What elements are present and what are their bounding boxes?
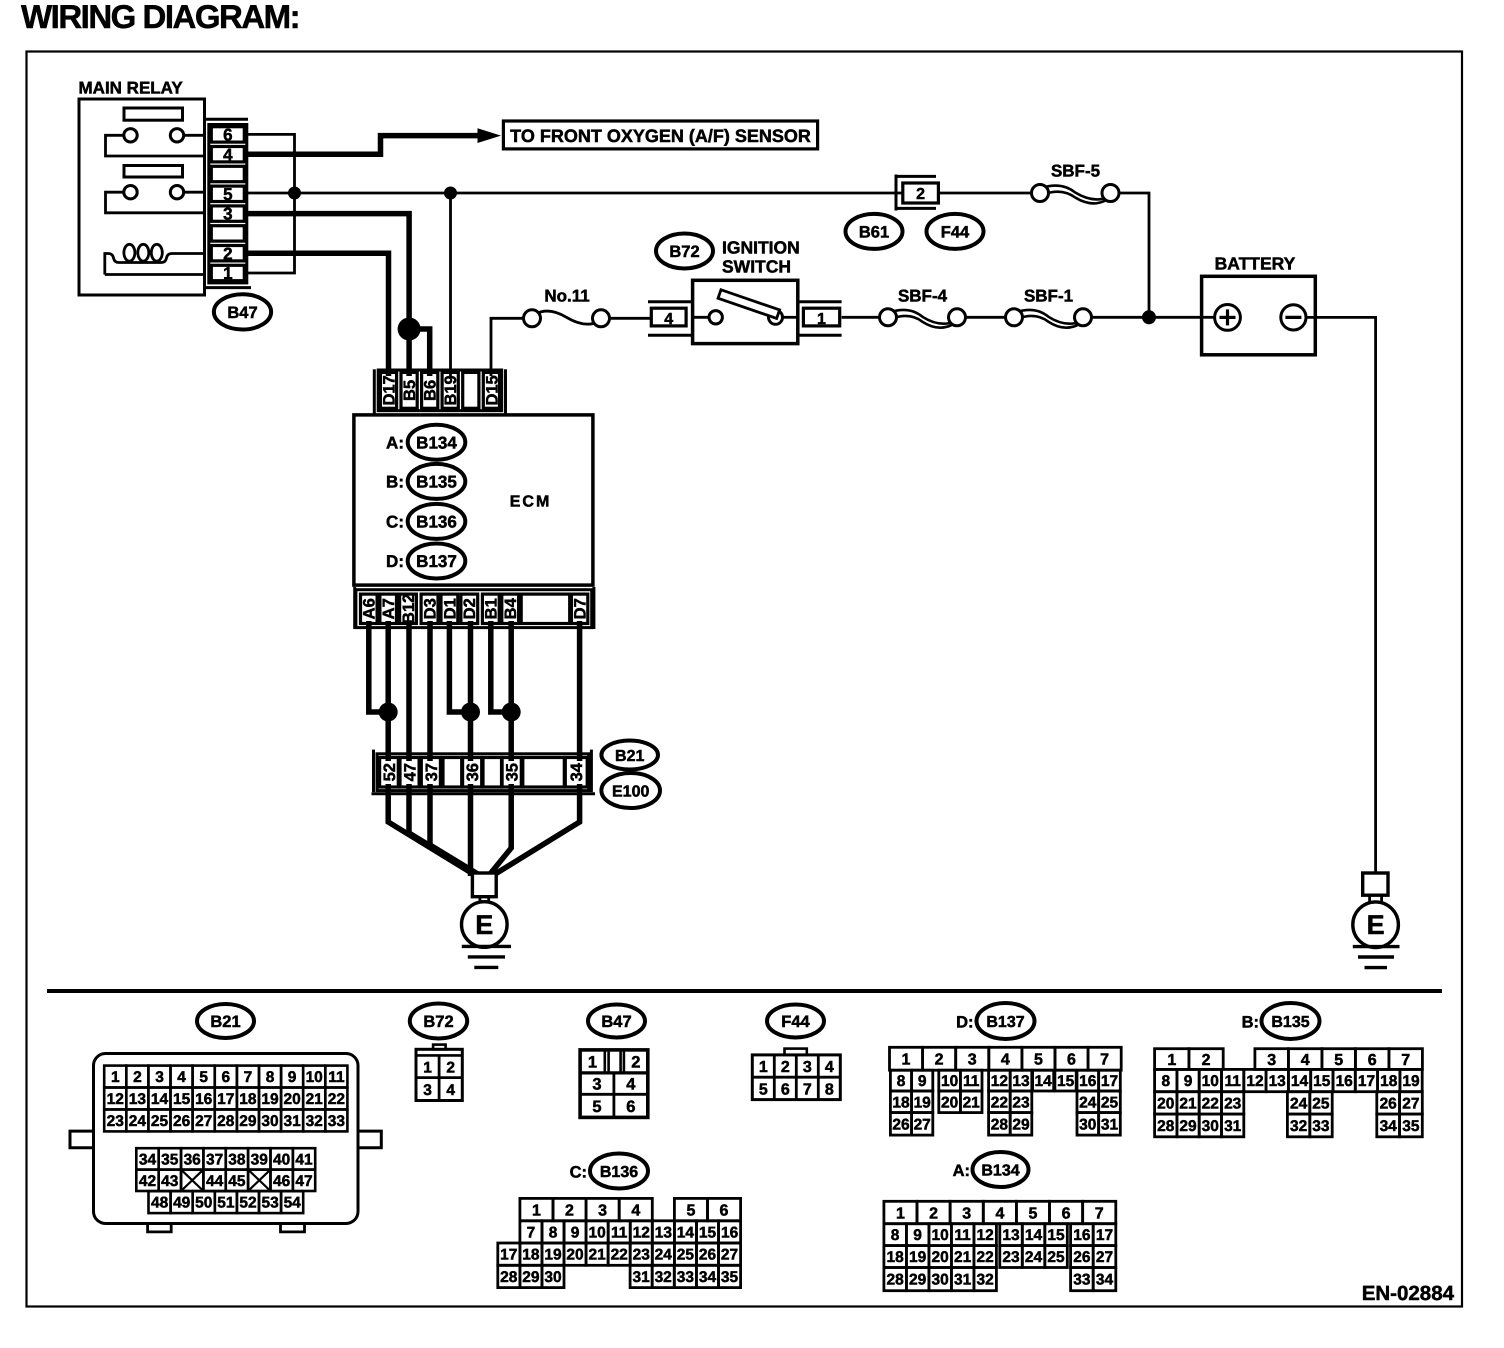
svg-text:18: 18 — [1380, 1073, 1398, 1090]
svg-text:35: 35 — [504, 763, 522, 781]
svg-text:B61: B61 — [859, 223, 889, 241]
svg-text:A7: A7 — [380, 598, 398, 619]
wire pin2 to ECM D17 (thick) — [247, 253, 389, 376]
svg-text:4: 4 — [1001, 1052, 1010, 1069]
ECM top connector strip (D17 B5 B6 B19 D15) — [374, 369, 505, 414]
svg-text:6: 6 — [1067, 1052, 1076, 1069]
svg-text:D15: D15 — [483, 375, 501, 405]
connector C B136 designator — [570, 1154, 648, 1189]
svg-text:42: 42 — [139, 1173, 156, 1190]
wire B1 (thick) — [491, 621, 511, 712]
svg-text:54: 54 — [284, 1195, 302, 1212]
svg-text:B:: B: — [1242, 1013, 1259, 1031]
svg-text:D:: D: — [956, 1013, 973, 1031]
svg-text:14: 14 — [1291, 1073, 1309, 1090]
svg-text:30: 30 — [931, 1272, 948, 1289]
oxygen sensor box — [503, 121, 817, 149]
wire D3 to pin37 (thick) — [427, 621, 433, 761]
svg-text:3: 3 — [962, 1205, 971, 1222]
svg-text:B12: B12 — [400, 594, 418, 624]
ECM connector ref A: B134 — [386, 425, 465, 460]
svg-text:51: 51 — [217, 1195, 235, 1212]
connector D B137 designator — [956, 1003, 1034, 1039]
svg-text:33: 33 — [1312, 1118, 1330, 1135]
svg-text:WIRING DIAGRAM:: WIRING DIAGRAM: — [21, 0, 299, 35]
ECM bottom connector strip (A6 A7 B12 D3 D1 D2 B1 B4 D7) — [355, 587, 594, 629]
svg-text:B136: B136 — [416, 513, 457, 532]
svg-text:37: 37 — [206, 1152, 223, 1169]
svg-text:C:: C: — [386, 513, 404, 532]
svg-text:32: 32 — [655, 1269, 672, 1286]
svg-text:8: 8 — [891, 1227, 900, 1244]
svg-text:A:: A: — [386, 433, 404, 452]
svg-text:10: 10 — [931, 1227, 948, 1244]
svg-text:1: 1 — [111, 1069, 120, 1086]
svg-text:18: 18 — [522, 1247, 540, 1264]
svg-text:22: 22 — [611, 1247, 628, 1264]
svg-text:2: 2 — [1202, 1052, 1211, 1069]
wire ECM D15 to fuse No.11 — [491, 318, 524, 376]
svg-text:SBF-1: SBF-1 — [1024, 287, 1073, 306]
svg-text:29: 29 — [522, 1269, 540, 1286]
svg-text:23: 23 — [1224, 1096, 1242, 1113]
svg-text:4: 4 — [626, 1076, 636, 1094]
svg-text:15: 15 — [699, 1225, 717, 1242]
svg-text:8: 8 — [1161, 1073, 1170, 1090]
svg-text:E: E — [475, 910, 493, 940]
svg-text:C:: C: — [570, 1163, 587, 1181]
svg-text:34: 34 — [568, 762, 586, 781]
svg-text:21: 21 — [588, 1247, 606, 1264]
svg-text:19: 19 — [544, 1247, 562, 1264]
svg-text:8: 8 — [266, 1069, 275, 1086]
svg-text:21: 21 — [306, 1091, 324, 1108]
wire SBF-5 to junction — [1119, 193, 1149, 317]
svg-text:29: 29 — [239, 1113, 257, 1130]
svg-text:40: 40 — [273, 1152, 290, 1169]
svg-text:29: 29 — [909, 1272, 927, 1289]
svg-text:11: 11 — [954, 1227, 971, 1244]
svg-text:25: 25 — [151, 1113, 169, 1130]
svg-text:12: 12 — [991, 1073, 1008, 1090]
fuse SBF-4 — [880, 287, 966, 328]
svg-text:16: 16 — [721, 1225, 739, 1242]
svg-text:17: 17 — [1096, 1227, 1113, 1244]
svg-text:8: 8 — [897, 1073, 906, 1090]
svg-text:22: 22 — [1202, 1096, 1219, 1113]
wire pin2box to SBF-5 — [938, 192, 1031, 195]
svg-text:2: 2 — [446, 1059, 455, 1076]
svg-text:6: 6 — [781, 1081, 790, 1098]
svg-text:35: 35 — [721, 1269, 739, 1286]
svg-text:25: 25 — [1312, 1096, 1330, 1113]
svg-text:8: 8 — [549, 1225, 558, 1242]
ECM connector ref D: B137 — [386, 544, 465, 579]
svg-text:47: 47 — [402, 763, 420, 781]
svg-text:3: 3 — [1267, 1052, 1276, 1069]
connector designator B21 (strip) — [601, 741, 658, 770]
wire SBF-4 to SBF-1 — [966, 316, 1006, 319]
wire No.11 to connector 4 — [610, 317, 652, 320]
connector B47 designator (pinout) — [588, 1005, 645, 1038]
connector C B136 pin grid — [498, 1198, 741, 1287]
svg-text:B47: B47 — [601, 1013, 631, 1031]
svg-text:B21: B21 — [210, 1013, 240, 1031]
svg-text:4: 4 — [1301, 1052, 1310, 1069]
svg-text:12: 12 — [633, 1225, 650, 1242]
svg-text:19: 19 — [1402, 1073, 1420, 1090]
svg-text:32: 32 — [1290, 1118, 1307, 1135]
svg-text:10: 10 — [941, 1073, 958, 1090]
connector pin 1 box (ignition switch output) — [798, 302, 842, 336]
fuse No.11 — [524, 287, 610, 327]
connector F44 body (pins 1-8) — [752, 1049, 840, 1100]
svg-text:1: 1 — [759, 1059, 768, 1076]
wire pin35 to ground (thick) — [488, 784, 511, 877]
svg-text:11: 11 — [963, 1073, 980, 1090]
svg-text:3: 3 — [423, 1082, 432, 1099]
svg-text:33: 33 — [328, 1113, 346, 1130]
battery label — [1215, 253, 1296, 273]
svg-text:21: 21 — [954, 1249, 972, 1266]
relay coil — [105, 244, 205, 274]
svg-text:27: 27 — [1096, 1249, 1113, 1266]
svg-text:B135: B135 — [1271, 1014, 1309, 1031]
svg-text:6: 6 — [1368, 1052, 1377, 1069]
svg-text:28: 28 — [991, 1116, 1009, 1133]
svg-text:16: 16 — [1073, 1227, 1091, 1244]
svg-text:3: 3 — [598, 1202, 607, 1219]
svg-text:27: 27 — [721, 1247, 738, 1264]
wire pin52 to ground (thick) — [388, 784, 479, 878]
title WIRING DIAGRAM — [21, 0, 299, 35]
connector B47 designator — [214, 294, 271, 329]
svg-text:B136: B136 — [600, 1164, 638, 1181]
battery negative terminal — [1281, 305, 1306, 330]
svg-text:SWITCH: SWITCH — [722, 257, 791, 277]
wire B4 to pin35 (thick) — [508, 621, 514, 761]
svg-text:5: 5 — [759, 1081, 768, 1098]
svg-text:28: 28 — [886, 1272, 904, 1289]
svg-text:D1: D1 — [441, 598, 459, 619]
svg-text:2: 2 — [781, 1059, 790, 1076]
svg-text:22: 22 — [976, 1249, 993, 1266]
body ground connector strip (52 47 37 36 35 34) — [372, 750, 596, 794]
svg-text:2: 2 — [929, 1205, 938, 1222]
svg-text:31: 31 — [1224, 1118, 1242, 1135]
svg-text:F44: F44 — [941, 223, 970, 241]
svg-text:52: 52 — [239, 1195, 256, 1212]
svg-text:25: 25 — [1047, 1249, 1065, 1266]
svg-text:4: 4 — [446, 1082, 455, 1099]
junction dot A6/A7 — [379, 703, 398, 722]
wire switch to SBF-4 — [842, 316, 880, 319]
wire pin37 to ground (thick) — [430, 784, 484, 878]
svg-text:23: 23 — [633, 1247, 651, 1264]
svg-text:26: 26 — [1380, 1096, 1398, 1113]
wire pin34 to ground (thick) — [490, 784, 580, 878]
svg-text:43: 43 — [161, 1173, 179, 1190]
svg-text:4: 4 — [223, 145, 233, 164]
wire battery negative to ground E — [1306, 317, 1376, 873]
svg-text:D17: D17 — [380, 375, 398, 405]
svg-text:26: 26 — [699, 1247, 717, 1264]
connector pin 4 box (ignition switch input) — [648, 302, 693, 336]
svg-text:31: 31 — [283, 1113, 301, 1130]
svg-text:3: 3 — [803, 1059, 812, 1076]
svg-text:34: 34 — [139, 1152, 157, 1169]
svg-text:20: 20 — [1157, 1096, 1174, 1113]
svg-text:1: 1 — [817, 311, 826, 328]
svg-text:50: 50 — [195, 1195, 212, 1212]
svg-text:16: 16 — [1079, 1073, 1097, 1090]
svg-text:1: 1 — [896, 1205, 905, 1222]
wire pin6 to pin1 loop — [247, 134, 295, 273]
svg-text:15: 15 — [1047, 1227, 1065, 1244]
svg-text:9: 9 — [918, 1073, 927, 1090]
svg-text:D:: D: — [386, 552, 404, 571]
svg-text:9: 9 — [1184, 1073, 1193, 1090]
wire contact1 right to pin 6 — [184, 134, 205, 137]
svg-text:10: 10 — [306, 1069, 323, 1086]
svg-text:E: E — [1367, 910, 1385, 940]
connector pin 2 box (SBF-5 feed) — [896, 175, 938, 211]
svg-text:12: 12 — [1246, 1073, 1263, 1090]
connector B72 body (pins 1-4) — [416, 1045, 462, 1101]
svg-text:53: 53 — [261, 1195, 279, 1212]
svg-text:6: 6 — [626, 1098, 635, 1116]
svg-text:1: 1 — [532, 1202, 541, 1219]
svg-text:B47: B47 — [227, 304, 257, 322]
svg-text:B137: B137 — [986, 1014, 1024, 1031]
wire branch to ECM B6 (thick) — [409, 329, 430, 376]
svg-text:9: 9 — [913, 1227, 922, 1244]
svg-text:31: 31 — [1101, 1116, 1119, 1133]
ground E (ECM side) — [462, 873, 512, 967]
svg-text:26: 26 — [892, 1116, 910, 1133]
svg-text:8: 8 — [825, 1081, 834, 1098]
wire D2 to pin36 (thick) — [468, 621, 474, 761]
relay contact 2 left terminal — [124, 186, 137, 199]
ignition switch — [693, 280, 798, 343]
svg-text:17: 17 — [1358, 1073, 1375, 1090]
svg-text:No.11: No.11 — [544, 287, 589, 306]
svg-text:28: 28 — [217, 1113, 235, 1130]
svg-text:4: 4 — [995, 1205, 1004, 1222]
relay contact bar 2 — [124, 166, 183, 178]
svg-text:13: 13 — [129, 1091, 147, 1108]
svg-text:24: 24 — [1079, 1094, 1097, 1111]
svg-text:B137: B137 — [416, 552, 457, 571]
wire D1 (thick) — [449, 621, 470, 712]
svg-text:47: 47 — [295, 1173, 312, 1190]
svg-text:2: 2 — [133, 1069, 142, 1086]
svg-text:34: 34 — [1380, 1118, 1398, 1135]
svg-text:12: 12 — [976, 1227, 993, 1244]
svg-text:TO FRONT OXYGEN (A/F) SENSOR: TO FRONT OXYGEN (A/F) SENSOR — [510, 126, 811, 146]
svg-text:14: 14 — [151, 1091, 169, 1108]
svg-text:3: 3 — [155, 1069, 164, 1086]
svg-text:B1: B1 — [483, 598, 501, 619]
svg-text:7: 7 — [803, 1081, 812, 1098]
svg-text:6: 6 — [223, 126, 232, 145]
svg-text:32: 32 — [306, 1113, 323, 1130]
wire pin36 to ground (thick) — [468, 784, 474, 876]
svg-text:F44: F44 — [781, 1013, 810, 1031]
svg-text:18: 18 — [239, 1091, 257, 1108]
ECM connector ref C: B136 — [386, 504, 465, 539]
svg-text:11: 11 — [328, 1069, 345, 1086]
svg-text:27: 27 — [914, 1116, 931, 1133]
svg-text:1: 1 — [423, 1059, 432, 1076]
connector designator B61 — [846, 214, 903, 249]
svg-text:13: 13 — [1012, 1073, 1030, 1090]
connector B47 pin strip (pins 6 4 5 3 2 1) — [205, 119, 252, 287]
svg-text:5: 5 — [1034, 1052, 1043, 1069]
svg-text:EN-02884: EN-02884 — [1362, 1282, 1455, 1305]
svg-text:38: 38 — [228, 1152, 246, 1169]
svg-text:14: 14 — [677, 1225, 695, 1242]
svg-text:30: 30 — [544, 1269, 561, 1286]
wire contact2 right to pin 5 — [184, 191, 205, 194]
svg-text:25: 25 — [677, 1247, 695, 1264]
wire D7 to pin34 (thick) — [577, 621, 583, 761]
svg-text:11: 11 — [1225, 1073, 1242, 1090]
svg-text:17: 17 — [217, 1091, 234, 1108]
svg-text:23: 23 — [1002, 1249, 1020, 1266]
svg-text:1: 1 — [223, 264, 232, 283]
svg-text:22: 22 — [991, 1094, 1008, 1111]
svg-text:41: 41 — [295, 1152, 313, 1169]
svg-text:13: 13 — [655, 1225, 673, 1242]
connector A B134 pin grid — [884, 1201, 1116, 1290]
connector B47 body (pins 1-6) — [580, 1050, 648, 1118]
svg-text:A:: A: — [953, 1162, 970, 1180]
svg-text:19: 19 — [914, 1094, 932, 1111]
wire pin4 to oxygen sensor (thick) — [247, 136, 479, 155]
svg-text:20: 20 — [283, 1091, 300, 1108]
svg-text:B6: B6 — [422, 380, 440, 401]
svg-text:29: 29 — [1179, 1118, 1197, 1135]
svg-text:31: 31 — [954, 1272, 972, 1289]
svg-text:D3: D3 — [422, 598, 440, 619]
connector B72 designator (pinout) — [410, 1004, 467, 1039]
svg-text:24: 24 — [655, 1247, 673, 1264]
connector designator E100 — [601, 773, 660, 808]
junction dot pin5/loop — [288, 187, 301, 200]
svg-text:20: 20 — [941, 1094, 958, 1111]
svg-text:24: 24 — [1290, 1096, 1308, 1113]
svg-text:BATTERY: BATTERY — [1215, 253, 1296, 273]
svg-text:SBF-5: SBF-5 — [1051, 162, 1100, 181]
svg-text:11: 11 — [611, 1225, 628, 1242]
svg-text:49: 49 — [173, 1195, 191, 1212]
connector B21 pins 48-54 — [149, 1191, 304, 1213]
svg-text:20: 20 — [566, 1247, 583, 1264]
svg-text:B21: B21 — [615, 748, 644, 765]
ECM connector ref B: B135 — [386, 464, 465, 499]
svg-text:SBF-4: SBF-4 — [898, 287, 948, 306]
svg-text:34: 34 — [699, 1269, 717, 1286]
svg-text:E100: E100 — [612, 783, 649, 800]
connector B21 pins 1-33 — [104, 1066, 347, 1132]
svg-text:14: 14 — [1034, 1073, 1052, 1090]
svg-text:16: 16 — [1336, 1073, 1354, 1090]
svg-text:3: 3 — [592, 1076, 601, 1094]
connector B21 body — [70, 1054, 381, 1232]
connector designator F44 — [927, 214, 984, 249]
svg-text:26: 26 — [173, 1113, 191, 1130]
svg-text:22: 22 — [328, 1091, 345, 1108]
svg-text:28: 28 — [1157, 1118, 1175, 1135]
connector B B135 designator — [1242, 1003, 1320, 1039]
svg-text:52: 52 — [381, 763, 399, 781]
svg-text:1: 1 — [902, 1052, 911, 1069]
battery positive terminal — [1215, 305, 1241, 331]
ignition switch label — [722, 238, 800, 277]
svg-text:35: 35 — [1402, 1118, 1420, 1135]
svg-text:27: 27 — [195, 1113, 212, 1130]
svg-text:MAIN RELAY: MAIN RELAY — [79, 79, 184, 98]
svg-text:D2: D2 — [461, 598, 479, 619]
svg-text:IGNITION: IGNITION — [722, 238, 800, 258]
svg-text:7: 7 — [527, 1225, 536, 1242]
svg-text:B5: B5 — [401, 380, 419, 401]
svg-text:15: 15 — [173, 1091, 191, 1108]
svg-text:4: 4 — [825, 1059, 834, 1076]
battery box — [1202, 276, 1316, 355]
svg-text:7: 7 — [244, 1069, 253, 1086]
junction dot B5/B6 (big) — [398, 318, 421, 341]
svg-text:19: 19 — [909, 1249, 927, 1266]
svg-text:4: 4 — [631, 1202, 640, 1219]
junction dot D1/D2 — [461, 703, 480, 722]
svg-text:24: 24 — [1025, 1249, 1043, 1266]
svg-text:4: 4 — [664, 311, 673, 328]
svg-text:B134: B134 — [981, 1162, 1019, 1179]
svg-text:5: 5 — [592, 1098, 601, 1116]
svg-text:2: 2 — [631, 1053, 640, 1071]
svg-text:44: 44 — [206, 1173, 224, 1190]
ECM box — [354, 415, 593, 585]
svg-text:A6: A6 — [361, 598, 379, 619]
svg-text:18: 18 — [886, 1249, 904, 1266]
connector B21 pins 34-47 — [136, 1148, 315, 1191]
svg-text:18: 18 — [892, 1094, 910, 1111]
svg-text:30: 30 — [1079, 1116, 1096, 1133]
svg-text:21: 21 — [963, 1094, 981, 1111]
svg-text:14: 14 — [1025, 1227, 1043, 1244]
svg-text:27: 27 — [1402, 1096, 1419, 1113]
svg-text:32: 32 — [976, 1272, 993, 1289]
wire battery positive lead — [1202, 316, 1215, 319]
svg-text:12: 12 — [107, 1091, 124, 1108]
svg-text:6: 6 — [720, 1202, 729, 1219]
svg-text:6: 6 — [1062, 1205, 1071, 1222]
svg-text:39: 39 — [251, 1152, 269, 1169]
main relay box — [79, 99, 205, 295]
svg-text:5: 5 — [223, 185, 232, 204]
svg-text:7: 7 — [1100, 1052, 1109, 1069]
svg-text:34: 34 — [1096, 1272, 1114, 1289]
svg-text:24: 24 — [129, 1113, 147, 1130]
wire pin3 to ECM B5 (thick) — [247, 214, 409, 376]
junction dot pin5/B19 — [444, 187, 457, 200]
svg-text:46: 46 — [273, 1173, 291, 1190]
svg-text:5: 5 — [1334, 1052, 1343, 1069]
wire contact2 left to pin 3 — [106, 192, 205, 213]
svg-text:B:: B: — [386, 473, 404, 492]
